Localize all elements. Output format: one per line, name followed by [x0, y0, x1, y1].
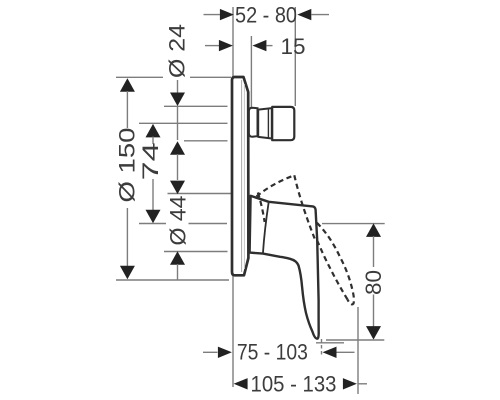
dimension 15	[205, 34, 306, 59]
dashed extension from solid handle tip	[321, 339, 323, 356]
extension line diameter150 top	[116, 76, 163, 78]
svg-text:75 - 103: 75 - 103	[237, 340, 308, 365]
handle lever (solid, down position)	[250, 196, 319, 339]
dimension 74 vertical	[138, 124, 163, 223]
handle lever (dashed, raised position)	[257, 175, 354, 304]
stop valve stem: cap	[272, 107, 294, 140]
dashed arm upper edge	[257, 175, 295, 196]
dimension 52-80 top	[204, 2, 330, 27]
extension line 74 top (valve axis)	[139, 122, 228, 124]
svg-text:Ø 150: Ø 150	[115, 128, 140, 203]
svg-text:80: 80	[361, 270, 386, 295]
dimension diameter24 vertical with outside arrows	[165, 24, 190, 180]
escutcheon plate (side profile)	[232, 77, 248, 275]
dimension diameter44 vertical with outside arrows	[166, 181, 191, 281]
extension line diameter24 bottom (stem bottom)	[184, 140, 228, 142]
extension line diameter150 bottom	[116, 279, 229, 281]
extension line diameter44 top	[168, 193, 232, 195]
dashed grip inner curve	[317, 241, 347, 300]
svg-text:105 - 133: 105 - 133	[251, 371, 337, 396]
extension line diameter44 bottom	[164, 251, 228, 253]
dimension 80 vertical right	[361, 223, 386, 339]
svg-text:Ø 24: Ø 24	[165, 24, 190, 78]
dashed grip outer curve	[317, 223, 354, 305]
handle hub inner line	[263, 202, 269, 253]
wall extension line (left vertical reference)	[232, 7, 234, 387]
extension line 80 bottom	[326, 339, 384, 341]
extension line at solid handle tip level	[316, 342, 344, 344]
svg-text:52 - 80: 52 - 80	[235, 2, 297, 27]
dimension 105-133 bottom	[234, 371, 367, 396]
extension line 74 bottom / 80 top	[139, 223, 166, 225]
stop valve stem: neck	[249, 108, 258, 137]
dimension 75-103 bottom	[203, 340, 355, 365]
extension line from dashed handle tip	[357, 307, 359, 394]
svg-text:Ø 44: Ø 44	[166, 196, 191, 246]
plate face shading lines	[241, 80, 243, 272]
stop valve stem: ribbed cylinder	[258, 108, 272, 138]
dashed arm front edge	[294, 175, 314, 238]
dimension diameter150 vertical	[115, 78, 140, 279]
extension line for 15 dimension	[250, 36, 252, 108]
right extension line for 52-80 dimension	[294, 7, 296, 106]
dashed hub left edge	[258, 193, 265, 223]
svg-text:74: 74	[138, 142, 163, 180]
extension line diameter24 top (stem top)	[164, 105, 228, 107]
svg-text:15: 15	[281, 34, 306, 59]
